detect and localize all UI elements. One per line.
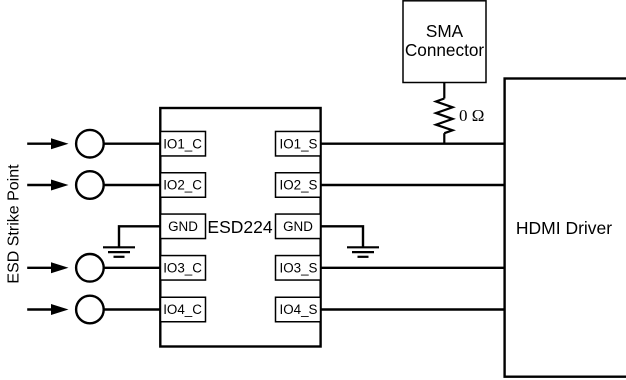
svg-text:Connector: Connector [405, 40, 485, 60]
svg-text:IO4_S: IO4_S [280, 302, 318, 317]
svg-text:GND: GND [168, 219, 198, 234]
svg-text:0 Ω: 0 Ω [459, 106, 484, 125]
svg-text:ESD Strike Point: ESD Strike Point [6, 164, 23, 284]
svg-text:IO3_S: IO3_S [280, 261, 318, 276]
svg-text:ESD224: ESD224 [207, 217, 272, 237]
svg-text:IO4_C: IO4_C [163, 302, 202, 317]
svg-text:IO2_C: IO2_C [163, 178, 202, 193]
svg-text:IO1_S: IO1_S [280, 136, 318, 151]
svg-text:IO1_C: IO1_C [163, 136, 202, 151]
svg-text:SMA: SMA [426, 21, 464, 41]
svg-text:GND: GND [283, 219, 313, 234]
svg-text:IO3_C: IO3_C [163, 261, 202, 276]
svg-text:IO2_S: IO2_S [280, 178, 318, 193]
svg-text:HDMI Driver: HDMI Driver [516, 218, 612, 238]
